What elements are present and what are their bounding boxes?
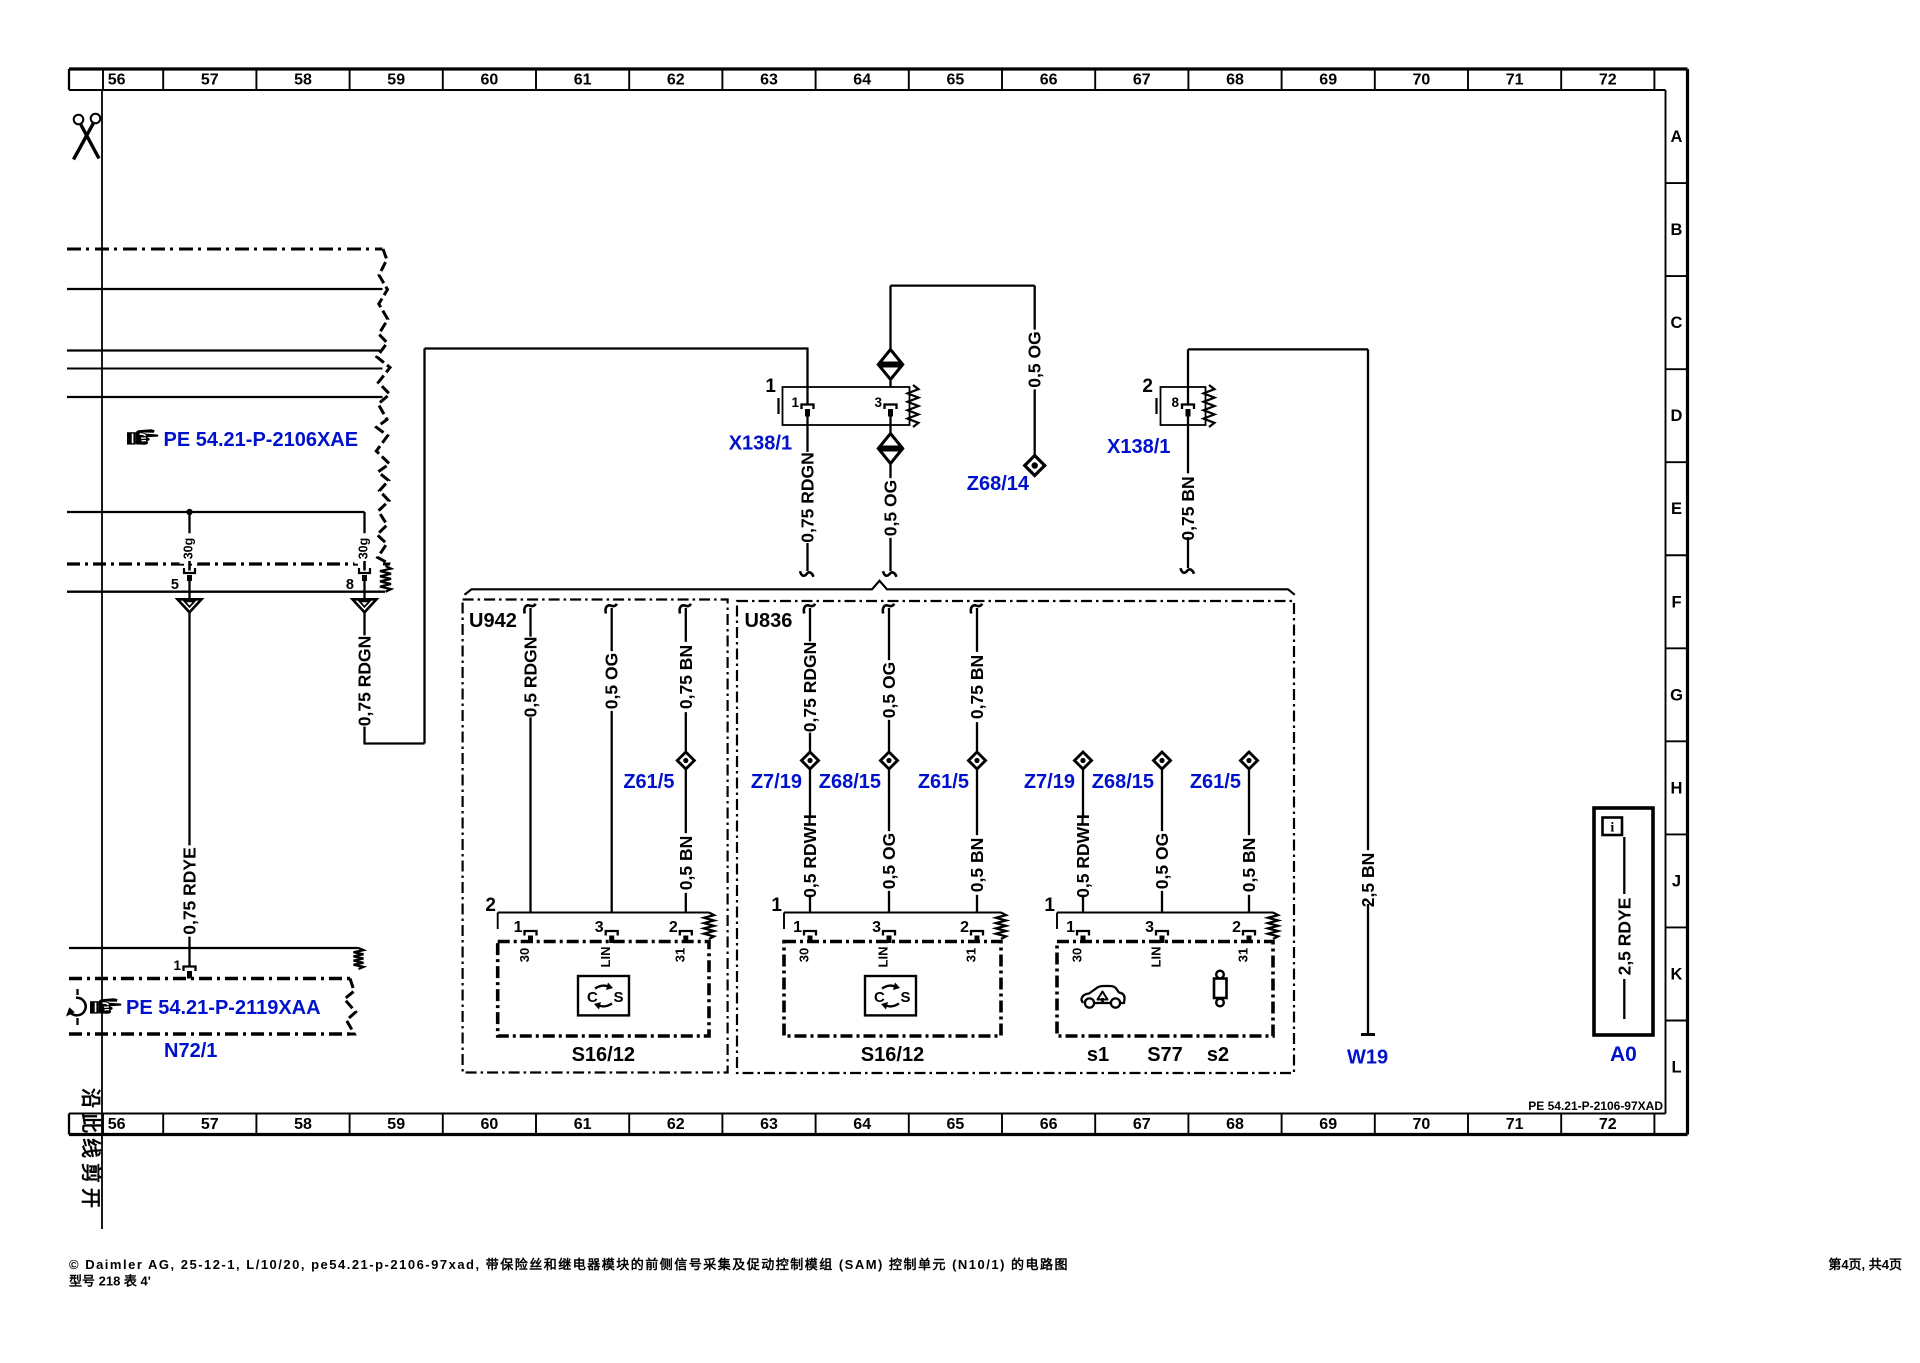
svg-text:K: K xyxy=(1671,965,1683,983)
svg-text:1: 1 xyxy=(791,395,799,410)
svg-text:第4页, 共4页: 第4页, 共4页 xyxy=(1828,1257,1902,1272)
svg-text:S: S xyxy=(614,989,624,1006)
svg-text:69: 69 xyxy=(1319,72,1337,89)
svg-text:63: 63 xyxy=(760,1116,778,1133)
svg-text:LIN: LIN xyxy=(876,947,891,968)
svg-text:PE 54.21-P-2106-97XAD: PE 54.21-P-2106-97XAD xyxy=(1528,1099,1663,1113)
svg-text:Z61/5: Z61/5 xyxy=(623,771,674,793)
svg-text:C: C xyxy=(1671,314,1683,332)
svg-text:0,5 OG: 0,5 OG xyxy=(1152,833,1172,889)
svg-text:63: 63 xyxy=(760,72,778,89)
svg-text:LIN: LIN xyxy=(598,947,613,968)
svg-text:s2: s2 xyxy=(1207,1044,1229,1066)
svg-text:PE 54.21-P-2119XAA: PE 54.21-P-2119XAA xyxy=(126,997,321,1019)
svg-text:30: 30 xyxy=(1070,948,1085,962)
svg-text:30g: 30g xyxy=(182,538,196,560)
svg-text:Z7/19: Z7/19 xyxy=(751,771,802,793)
svg-text:2: 2 xyxy=(669,919,678,936)
svg-text:64: 64 xyxy=(853,1116,871,1133)
svg-text:70: 70 xyxy=(1413,1116,1431,1133)
svg-text:2,5 BN: 2,5 BN xyxy=(1358,853,1378,907)
svg-text:1: 1 xyxy=(765,376,776,397)
svg-text:U942: U942 xyxy=(469,610,517,632)
svg-text:72: 72 xyxy=(1599,1116,1617,1133)
svg-text:沿此线剪开: 沿此线剪开 xyxy=(79,1088,103,1213)
svg-text:0,75 BN: 0,75 BN xyxy=(967,655,987,719)
svg-text:2: 2 xyxy=(1142,376,1153,397)
svg-text:F: F xyxy=(1671,593,1681,611)
svg-text:U836: U836 xyxy=(745,610,793,632)
svg-text:D: D xyxy=(1671,407,1683,425)
svg-text:S: S xyxy=(901,989,911,1006)
svg-text:58: 58 xyxy=(294,1116,312,1133)
svg-text:Z68/15: Z68/15 xyxy=(819,771,881,793)
svg-text:30: 30 xyxy=(517,948,532,962)
svg-text:3: 3 xyxy=(1145,919,1154,936)
svg-text:J: J xyxy=(1672,872,1681,890)
svg-text:56: 56 xyxy=(108,72,126,89)
svg-text:5: 5 xyxy=(171,577,179,593)
svg-text:0,5 OG: 0,5 OG xyxy=(879,833,899,889)
svg-text:0,5 RDGN: 0,5 RDGN xyxy=(521,637,541,718)
svg-text:3: 3 xyxy=(595,919,604,936)
svg-text:0,75 RDGN: 0,75 RDGN xyxy=(800,642,820,732)
svg-text:0,5 OG: 0,5 OG xyxy=(879,662,899,718)
svg-text:0,75 BN: 0,75 BN xyxy=(1178,476,1198,540)
svg-text:71: 71 xyxy=(1506,1116,1524,1133)
svg-text:65: 65 xyxy=(947,72,965,89)
svg-text:0,5 OG: 0,5 OG xyxy=(1025,331,1045,387)
svg-text:1: 1 xyxy=(793,919,802,936)
svg-text:56: 56 xyxy=(108,1116,126,1133)
svg-text:2: 2 xyxy=(485,895,496,916)
svg-text:0,75 RDYE: 0,75 RDYE xyxy=(180,847,200,935)
svg-text:0,5 BN: 0,5 BN xyxy=(1239,838,1259,892)
svg-text:3: 3 xyxy=(872,919,881,936)
svg-text:1: 1 xyxy=(1066,919,1075,936)
svg-text:61: 61 xyxy=(574,72,592,89)
svg-text:0,5 OG: 0,5 OG xyxy=(881,480,901,536)
svg-text:LIN: LIN xyxy=(1149,947,1164,968)
svg-text:1: 1 xyxy=(514,919,523,936)
svg-text:59: 59 xyxy=(387,1116,405,1133)
svg-text:59: 59 xyxy=(387,72,405,89)
svg-text:65: 65 xyxy=(947,1116,965,1133)
svg-text:68: 68 xyxy=(1226,72,1244,89)
svg-text:Z68/15: Z68/15 xyxy=(1092,771,1154,793)
svg-text:Z68/14: Z68/14 xyxy=(967,473,1030,495)
svg-text:0,75 RDGN: 0,75 RDGN xyxy=(798,452,818,542)
svg-text:70: 70 xyxy=(1413,72,1431,89)
svg-text:B: B xyxy=(1671,221,1683,239)
svg-text:64: 64 xyxy=(853,72,871,89)
svg-text:W19: W19 xyxy=(1347,1047,1388,1069)
svg-text:0,75 RDGN: 0,75 RDGN xyxy=(355,636,375,726)
svg-text:69: 69 xyxy=(1319,1116,1337,1133)
svg-text:2: 2 xyxy=(960,919,969,936)
svg-text:N72/1: N72/1 xyxy=(164,1040,217,1062)
svg-text:60: 60 xyxy=(481,72,499,89)
svg-text:2: 2 xyxy=(1232,919,1241,936)
svg-text:S16/12: S16/12 xyxy=(572,1044,635,1066)
svg-text:71: 71 xyxy=(1506,72,1524,89)
svg-text:X138/1: X138/1 xyxy=(729,433,792,455)
svg-text:A0: A0 xyxy=(1610,1043,1637,1066)
svg-text:Z61/5: Z61/5 xyxy=(1190,771,1241,793)
svg-text:72: 72 xyxy=(1599,72,1617,89)
svg-text:66: 66 xyxy=(1040,1116,1058,1133)
svg-text:0,5 OG: 0,5 OG xyxy=(602,653,622,709)
svg-text:A: A xyxy=(1671,128,1683,146)
svg-text:Z7/19: Z7/19 xyxy=(1024,771,1075,793)
svg-text:2,5 RDYE: 2,5 RDYE xyxy=(1614,898,1634,976)
svg-text:1: 1 xyxy=(771,895,782,916)
svg-text:31: 31 xyxy=(1236,948,1251,962)
svg-text:67: 67 xyxy=(1133,1116,1151,1133)
svg-text:8: 8 xyxy=(1171,395,1179,410)
svg-text:© Daimler AG, 25-12-1, L/10/20: © Daimler AG, 25-12-1, L/10/20, pe54.21-… xyxy=(69,1257,1069,1272)
svg-text:Z61/5: Z61/5 xyxy=(918,771,969,793)
svg-text:S77: S77 xyxy=(1147,1044,1183,1066)
svg-text:PE 54.21-P-2106XAE: PE 54.21-P-2106XAE xyxy=(164,429,359,451)
svg-text:62: 62 xyxy=(667,72,685,89)
svg-text:57: 57 xyxy=(201,72,219,89)
svg-text:3: 3 xyxy=(874,395,882,410)
svg-text:31: 31 xyxy=(964,948,979,962)
svg-text:67: 67 xyxy=(1133,72,1151,89)
svg-text:61: 61 xyxy=(574,1116,592,1133)
svg-text:58: 58 xyxy=(294,72,312,89)
svg-text:31: 31 xyxy=(672,948,687,962)
svg-text:0,75 BN: 0,75 BN xyxy=(676,645,696,709)
svg-text:8: 8 xyxy=(346,577,354,593)
svg-text:1: 1 xyxy=(1044,895,1055,916)
svg-text:s1: s1 xyxy=(1087,1044,1109,1066)
svg-text:E: E xyxy=(1671,500,1682,518)
svg-text:30: 30 xyxy=(797,948,812,962)
svg-text:0,5 BN: 0,5 BN xyxy=(676,836,696,890)
svg-text:68: 68 xyxy=(1226,1116,1244,1133)
svg-text:0,5 RDWH: 0,5 RDWH xyxy=(800,814,820,898)
svg-text:H: H xyxy=(1671,779,1683,797)
svg-text:G: G xyxy=(1670,686,1683,704)
svg-text:型号 218 表 4': 型号 218 表 4' xyxy=(69,1274,151,1289)
svg-text:0,5 RDWH: 0,5 RDWH xyxy=(1073,814,1093,898)
svg-text:30g: 30g xyxy=(357,538,371,560)
svg-text:0,5 BN: 0,5 BN xyxy=(967,838,987,892)
svg-text:L: L xyxy=(1671,1059,1681,1077)
svg-text:57: 57 xyxy=(201,1116,219,1133)
svg-text:62: 62 xyxy=(667,1116,685,1133)
svg-text:S16/12: S16/12 xyxy=(861,1044,924,1066)
svg-text:60: 60 xyxy=(481,1116,499,1133)
svg-text:66: 66 xyxy=(1040,72,1058,89)
svg-text:1: 1 xyxy=(173,958,181,973)
svg-text:X138/1: X138/1 xyxy=(1107,436,1170,458)
svg-text:i: i xyxy=(1610,821,1614,836)
